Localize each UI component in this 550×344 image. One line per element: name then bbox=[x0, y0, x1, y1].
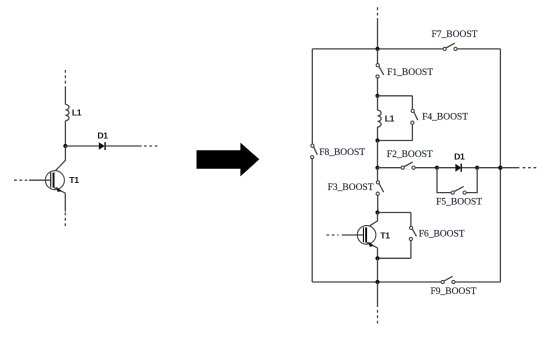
wire bottom tail (dashed) bbox=[377, 310, 379, 325]
svg-text:F9_BOOST: F9_BOOST bbox=[431, 287, 477, 297]
svg-text:F8_BOOST: F8_BOOST bbox=[319, 148, 365, 158]
svg-text:L1: L1 bbox=[385, 114, 395, 124]
node bottom bbox=[375, 280, 379, 284]
wire main bottom bbox=[377, 258, 379, 282]
wire top rail left bbox=[312, 48, 443, 50]
wire main mid bbox=[377, 141, 379, 168]
wire bottom tail bbox=[377, 282, 379, 307]
wire outer left lower bbox=[311, 159, 313, 282]
svg-text:F5_BOOST: F5_BOOST bbox=[436, 198, 482, 208]
fuse-switch F7_BOOST bbox=[432, 30, 478, 50]
wire parallel top (L1/F4) bbox=[378, 95, 413, 97]
diode D1 bbox=[97, 130, 108, 150]
node T1 bottom bbox=[375, 256, 379, 260]
wire left top bbox=[64, 86, 66, 104]
wire parallel bottom (T1/F6) bbox=[378, 257, 411, 259]
svg-text:T1: T1 bbox=[380, 230, 390, 240]
fuse-switch F3_BOOST bbox=[328, 168, 384, 213]
wire parallel bottom (L1/F4) bbox=[378, 140, 413, 142]
wire emitter down (dashed) bbox=[64, 213, 66, 228]
wire mid rail 2 bbox=[415, 167, 437, 169]
wire diode out (dashed) bbox=[144, 145, 159, 147]
node mid rail bbox=[375, 166, 379, 170]
wire mid rail out (dashed) bbox=[523, 167, 537, 169]
fuse-switch F1_BOOST bbox=[376, 49, 433, 96]
wire outer left upper bbox=[311, 49, 313, 144]
transistor T1 (right) bbox=[326, 226, 390, 248]
fuse-switch F5_BOOST bbox=[436, 168, 482, 208]
diode D1 (right) bbox=[454, 152, 465, 172]
node left bbox=[63, 144, 67, 148]
svg-text:F7_BOOST: F7_BOOST bbox=[432, 30, 478, 40]
wire mid rail 3 bbox=[477, 167, 500, 169]
svg-text:F2_BOOST: F2_BOOST bbox=[387, 150, 433, 160]
inductor L1 bbox=[65, 105, 81, 121]
wire coil to node bbox=[377, 127, 379, 141]
wire bottom rail right bbox=[455, 281, 500, 283]
wire emitter down bbox=[64, 193, 66, 211]
node mid right bbox=[498, 166, 502, 170]
wire diode to node bbox=[462, 167, 478, 169]
svg-text:T1: T1 bbox=[69, 175, 79, 185]
big arrow bbox=[197, 143, 260, 177]
svg-text:F3_BOOST: F3_BOOST bbox=[328, 183, 374, 193]
fuse-switch F4_BOOST bbox=[411, 96, 468, 141]
wire L1 to node bbox=[64, 121, 66, 146]
wire emitter to node bbox=[377, 248, 379, 258]
inductor L1 (right) bbox=[378, 110, 395, 127]
node top bbox=[375, 47, 379, 51]
node L1 bottom bbox=[375, 138, 379, 142]
wire node to diode bbox=[65, 145, 98, 147]
wire main top (dashed) bbox=[377, 7, 379, 20]
node L1 top bbox=[375, 94, 379, 98]
wire to diode bbox=[437, 167, 456, 169]
node D1 left bbox=[435, 166, 439, 170]
wire outer right bbox=[499, 49, 501, 282]
node T1 top bbox=[375, 210, 379, 214]
wire left supply top (dashed) bbox=[64, 70, 66, 86]
wire diode out bbox=[106, 145, 142, 147]
fuse-switch F8_BOOST bbox=[311, 144, 366, 159]
wire collector right bbox=[366, 213, 378, 229]
transistor T1 bbox=[14, 171, 79, 193]
wire mid rail out bbox=[500, 167, 519, 169]
fuse-switch F9_BOOST bbox=[431, 276, 477, 297]
wire main top bbox=[377, 20, 379, 49]
wire main to coil bbox=[377, 96, 379, 110]
svg-text:D1: D1 bbox=[97, 130, 108, 140]
fuse-switch F6_BOOST bbox=[409, 213, 465, 259]
svg-text:D1: D1 bbox=[454, 152, 465, 162]
wire mid rail 1 bbox=[378, 167, 402, 169]
wire parallel top (T1/F6) bbox=[378, 212, 411, 214]
node D1 right bbox=[475, 166, 479, 170]
wire bottom rail left bbox=[312, 281, 441, 283]
svg-text:F1_BOOST: F1_BOOST bbox=[387, 68, 433, 78]
fuse-switch F2_BOOST bbox=[387, 150, 433, 169]
svg-text:L1: L1 bbox=[72, 108, 82, 118]
wire collector left bbox=[54, 146, 66, 173]
wire top rail right bbox=[457, 48, 500, 50]
svg-text:F4_BOOST: F4_BOOST bbox=[422, 112, 468, 122]
svg-text:F6_BOOST: F6_BOOST bbox=[419, 230, 465, 240]
